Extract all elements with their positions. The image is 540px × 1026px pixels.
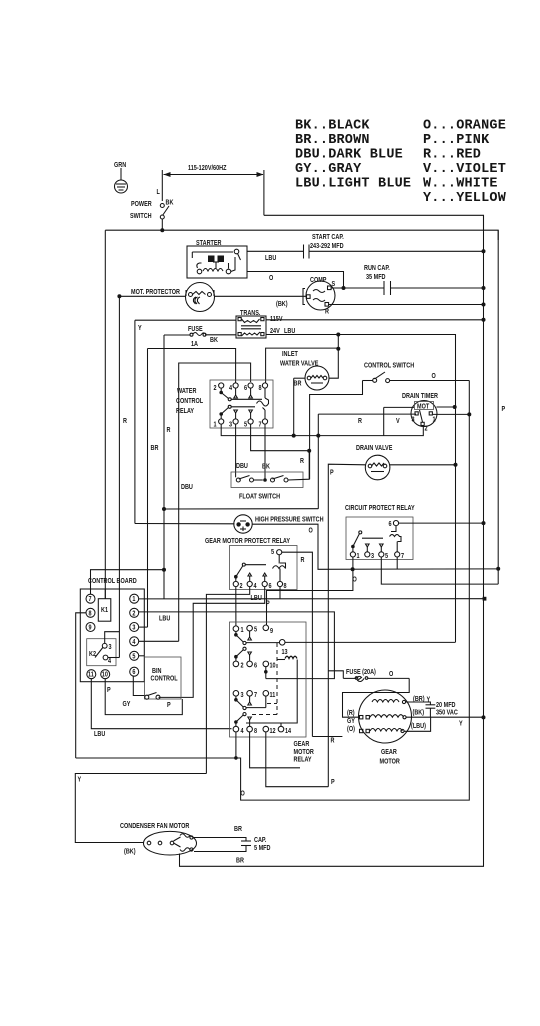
- wire GM4 to O line: [235, 732, 237, 758]
- wire GM12 P: [266, 732, 329, 787]
- svg-text:P: P: [107, 686, 111, 694]
- svg-text:2: 2: [132, 610, 135, 618]
- wire comp R to Y bus: [328, 303, 486, 307]
- gear motor relay GEAR MOTOR RELAY: [230, 622, 315, 764]
- R wire into motor: [312, 736, 342, 738]
- wire term10 dot down right LBU: [265, 667, 267, 679]
- svg-text:3: 3: [109, 643, 112, 651]
- svg-text:P...PINK: P...PINK: [423, 133, 490, 148]
- svg-text:GRN: GRN: [114, 161, 127, 169]
- wire K1 feeds: [104, 589, 106, 599]
- svg-text:9: 9: [270, 627, 273, 635]
- wire starter to start cap LBU: [247, 250, 303, 252]
- wire term7 up and over: [91, 570, 165, 595]
- wire O net bottom y758: [76, 381, 470, 801]
- svg-text:FUSE (20A): FUSE (20A): [346, 668, 376, 676]
- svg-text:115-120V/60HZ: 115-120V/60HZ: [188, 164, 227, 172]
- svg-text:W...WHITE: W...WHITE: [423, 177, 498, 192]
- svg-text:O: O: [353, 576, 357, 584]
- svg-text:SWITCH: SWITCH: [130, 212, 152, 220]
- svg-text:BR: BR: [151, 444, 159, 452]
- svg-text:7: 7: [259, 421, 262, 429]
- wire Y net y773.5: [75, 774, 206, 843]
- svg-text:Y...YELLOW: Y...YELLOW: [423, 191, 507, 206]
- svg-text:243-292 MFD: 243-292 MFD: [310, 242, 344, 250]
- svg-text:6: 6: [254, 662, 257, 670]
- svg-text:4: 4: [108, 657, 111, 665]
- svg-text:6: 6: [132, 669, 135, 677]
- wire P GMPR6 to bin control: [159, 587, 271, 698]
- svg-text:4: 4: [254, 582, 257, 590]
- svg-text:1: 1: [132, 596, 135, 604]
- svg-text:3: 3: [371, 552, 374, 560]
- svg-text:R: R: [301, 556, 305, 564]
- svg-text:GEAR MOTOR PROTECT RELAY: GEAR MOTOR PROTECT RELAY: [205, 537, 291, 545]
- wire 13 to LBU bus: [285, 641, 455, 643]
- svg-text:8: 8: [89, 610, 92, 618]
- wire term6 GY to bin: [123, 676, 146, 708]
- wire Y motor middle lead to Y bus: [406, 715, 486, 727]
- wire term5 to bin: [139, 655, 145, 657]
- svg-text:3: 3: [229, 421, 232, 429]
- svg-text:START CAP.: START CAP.: [312, 233, 344, 241]
- svg-text:CAP.: CAP.: [254, 836, 267, 844]
- starter STARTER: [187, 239, 247, 278]
- svg-text:RUN CAP.: RUN CAP.: [364, 264, 390, 272]
- wire P term10 down right: [105, 679, 182, 715]
- svg-text:R: R: [325, 308, 329, 316]
- svg-text:11: 11: [270, 691, 276, 699]
- svg-text:V...VIOLET: V...VIOLET: [423, 162, 506, 177]
- fan cap CAP. 5 MFD: [193, 825, 271, 864]
- right bus Y x=483.5: [483, 215, 485, 717]
- svg-text:LBU: LBU: [94, 730, 106, 738]
- svg-text:MOTOR: MOTOR: [294, 748, 315, 756]
- wire term2 LBU: [139, 612, 335, 679]
- svg-text:LBU: LBU: [265, 254, 277, 262]
- svg-text:GEAR: GEAR: [294, 740, 310, 748]
- svg-text:BR: BR: [234, 825, 242, 833]
- svg-text:CIRCUIT PROTECT RELAY: CIRCUIT PROTECT RELAY: [345, 504, 415, 512]
- svg-text:P: P: [330, 469, 334, 477]
- svg-text:8: 8: [254, 727, 257, 735]
- svg-text:1: 1: [357, 552, 360, 560]
- wire trans primary right to Y bus: [266, 318, 486, 322]
- control board CONTROL BOARD: [80, 577, 144, 681]
- wire GMPR8 right down: [279, 587, 281, 599]
- svg-text:350 VAC: 350 VAC: [436, 709, 458, 717]
- ground GRN: [114, 161, 128, 193]
- relay K2: [87, 639, 116, 666]
- svg-text:BK: BK: [166, 199, 174, 207]
- drain valve DRAIN VALVE: [328, 444, 457, 786]
- svg-text:LBU: LBU: [159, 615, 171, 623]
- svg-text:3: 3: [132, 624, 135, 632]
- dashed actuator: [276, 643, 278, 715]
- svg-text:BK..BLACK: BK..BLACK: [295, 119, 370, 134]
- circuit protect relay CIRCUIT PROTECT RELAY: [267, 504, 499, 625]
- wire LBU 24V bus to x455: [266, 333, 456, 643]
- svg-text:5: 5: [385, 552, 388, 560]
- svg-text:1: 1: [214, 421, 217, 429]
- svg-text:P: P: [502, 405, 506, 413]
- svg-text:BR..BROWN: BR..BROWN: [295, 133, 370, 148]
- svg-text:MOTOR: MOTOR: [380, 758, 401, 766]
- svg-text:R: R: [123, 417, 127, 425]
- svg-text:O: O: [389, 670, 393, 678]
- svg-text:POWER: POWER: [131, 200, 152, 208]
- wire relay7 BK to float: [262, 424, 270, 480]
- svg-text:K1: K1: [101, 606, 108, 614]
- svg-text:FLOAT SWITCH: FLOAT SWITCH: [239, 493, 280, 501]
- svg-text:P: P: [331, 778, 335, 786]
- svg-text:7: 7: [254, 691, 257, 699]
- drain timer DRAIN TIMER: [318, 392, 471, 508]
- svg-text:10: 10: [102, 671, 108, 679]
- svg-text:1: 1: [241, 626, 244, 634]
- wire relay1 to timer term2: [221, 424, 423, 438]
- svg-text:14: 14: [285, 727, 291, 735]
- wire term8 left down O net: [76, 613, 86, 758]
- svg-text:3: 3: [241, 691, 244, 699]
- svg-text:4: 4: [241, 727, 244, 735]
- wire R net y=508.7: [162, 507, 318, 511]
- svg-text:CONTROL SWITCH: CONTROL SWITCH: [364, 362, 415, 370]
- svg-text:2: 2: [240, 582, 243, 590]
- svg-text:Y: Y: [78, 776, 82, 784]
- svg-text:12: 12: [270, 727, 276, 735]
- gear motor GEAR MOTOR: [312, 690, 411, 766]
- condenser fan motor CONDENSER FAN MOTOR: [120, 822, 197, 855]
- svg-text:R: R: [167, 426, 171, 434]
- svg-text:CONDENSER FAN MOTOR: CONDENSER FAN MOTOR: [120, 822, 190, 830]
- svg-text:BIN: BIN: [152, 667, 162, 675]
- svg-text:LBU.LIGHT BLUE: LBU.LIGHT BLUE: [295, 177, 411, 192]
- wire BR y348 to relay4: [148, 349, 236, 628]
- svg-text:DBU.DARK BLUE: DBU.DARK BLUE: [295, 148, 403, 163]
- svg-text:(O): (O): [347, 725, 355, 733]
- svg-text:3: 3: [412, 416, 415, 424]
- svg-text:BR: BR: [294, 380, 302, 388]
- svg-text:DBU: DBU: [236, 462, 248, 470]
- svg-text:L: L: [157, 188, 160, 196]
- svg-text:6: 6: [244, 384, 247, 392]
- svg-text:(BK): (BK): [276, 300, 288, 308]
- svg-text:GEAR: GEAR: [381, 748, 397, 756]
- svg-text:5: 5: [271, 548, 274, 556]
- wire R fuse down x=163.5: [163, 335, 165, 599]
- 115-120V/60HZ dimension: [162, 164, 264, 215]
- power switch: [130, 188, 174, 232]
- water control relay WATER CONTROL RELAY: [176, 380, 273, 429]
- svg-text:(BK): (BK): [124, 848, 136, 856]
- svg-text:O: O: [269, 274, 273, 282]
- svg-text:35 MFD: 35 MFD: [366, 273, 386, 281]
- internals: [234, 633, 238, 637]
- svg-text:O: O: [241, 790, 245, 798]
- svg-text:BR: BR: [236, 857, 244, 865]
- svg-text:INLET: INLET: [282, 350, 298, 358]
- wire O starter to comp S: [247, 272, 344, 289]
- wire term3 BR: [139, 626, 148, 628]
- svg-text:R...RED: R...RED: [423, 148, 481, 163]
- wire term1 R: [139, 598, 485, 600]
- svg-text:CONTROL: CONTROL: [151, 675, 178, 683]
- svg-text:CONTROL BOARD: CONTROL BOARD: [88, 577, 137, 585]
- transformer TRANS.: [236, 309, 296, 338]
- svg-text:2: 2: [214, 384, 217, 392]
- svg-text:Y: Y: [459, 720, 463, 728]
- svg-text:DRAIN TIMER: DRAIN TIMER: [402, 392, 438, 400]
- svg-text:(BK): (BK): [413, 709, 425, 717]
- svg-text:2: 2: [241, 662, 244, 670]
- main left vertical BK: [104, 230, 106, 598]
- svg-text:O: O: [309, 527, 313, 535]
- right bus BK x=498.2: [497, 230, 499, 584]
- wire R x=119.7 motprot junction down: [118, 296, 120, 657]
- svg-text:V: V: [396, 417, 400, 425]
- float switch FLOAT SWITCH: [231, 451, 309, 501]
- svg-text:20 MFD: 20 MFD: [436, 701, 456, 709]
- wire LBU motor bottom lead: [404, 717, 431, 731]
- svg-text:GY..GRAY: GY..GRAY: [295, 162, 362, 177]
- wire LBU GMPR4 left down x206: [206, 587, 262, 774]
- svg-text:O...ORANGE: O...ORANGE: [423, 119, 506, 134]
- control switch CONTROL SWITCH: [310, 362, 470, 479]
- svg-text:(R): (R): [347, 709, 355, 717]
- relay K1: [98, 599, 111, 622]
- svg-text:5: 5: [132, 653, 135, 661]
- svg-text:BK: BK: [210, 336, 218, 344]
- svg-text:R: R: [331, 737, 335, 745]
- svg-text:DRAIN VALVE: DRAIN VALVE: [356, 444, 393, 452]
- wire Y x=134.9 down: [134, 320, 136, 523]
- wire relay5 to float right: [251, 424, 312, 465]
- svg-text:1A: 1A: [191, 340, 198, 348]
- svg-text:8: 8: [284, 582, 287, 590]
- svg-text:9: 9: [89, 624, 92, 632]
- svg-text:P: P: [266, 600, 270, 608]
- svg-text:GY: GY: [123, 700, 132, 708]
- svg-text:6: 6: [389, 520, 392, 528]
- svg-text:CONTROL: CONTROL: [176, 397, 203, 405]
- svg-text:10: 10: [270, 662, 276, 670]
- svg-text:BK: BK: [262, 463, 270, 471]
- svg-text:O: O: [432, 372, 436, 380]
- run cap RUN CAP. 35 MFD: [344, 264, 486, 295]
- svg-text:5 MFD: 5 MFD: [254, 844, 271, 852]
- svg-text:13: 13: [282, 648, 288, 656]
- wire GM8 down: [250, 732, 300, 768]
- compressor COMP: [303, 276, 346, 315]
- inlet water valve INLET WATER VALVE: [280, 349, 338, 436]
- motor protector MOT. PROTECTOR: [117, 283, 306, 312]
- wire relay3 DBU to float: [236, 424, 249, 477]
- wire Y top: [264, 215, 484, 230]
- fuse FUSE 1A: [164, 325, 236, 348]
- svg-text:5: 5: [244, 421, 247, 429]
- svg-text:1: 1: [433, 416, 436, 424]
- svg-text:4: 4: [229, 384, 232, 392]
- svg-text:6: 6: [269, 582, 272, 590]
- svg-text:11: 11: [88, 671, 94, 679]
- svg-text:2: 2: [425, 425, 428, 433]
- wire fan bottom loop to Y bus: [180, 717, 484, 866]
- svg-text:HIGH PRESSURE SWITCH: HIGH PRESSURE SWITCH: [255, 516, 324, 524]
- fuse FUSE (20A): [328, 668, 409, 717]
- gear motor protect relay GEAR MOTOR PROTECT RELAY: [205, 537, 312, 736]
- svg-text:MOT. PROTECTOR: MOT. PROTECTOR: [131, 288, 180, 296]
- svg-text:RELAY: RELAY: [176, 407, 195, 415]
- high pressure switch HIGH PRESSURE SWITCH: [135, 515, 498, 572]
- start cap START CAP. 243-292 MFD: [304, 233, 486, 258]
- svg-text:7: 7: [401, 552, 404, 560]
- svg-text:P: P: [167, 701, 171, 709]
- wire DBU x=178.7: relay6 to board4: [179, 363, 251, 641]
- svg-text:GY: GY: [347, 717, 356, 725]
- svg-text:R: R: [300, 457, 304, 465]
- wire LBU to relay8: [266, 348, 339, 383]
- legend: [295, 119, 507, 207]
- wire LBU term11 down right to GM relay 4: [91, 679, 231, 739]
- wire BK top edge: [105, 230, 498, 240]
- svg-text:WATER: WATER: [177, 387, 197, 395]
- wire term4 DBU: [139, 640, 179, 642]
- svg-text:R: R: [358, 417, 362, 425]
- svg-text:(LBU): (LBU): [411, 722, 426, 730]
- svg-text:S: S: [332, 280, 336, 288]
- svg-text:8: 8: [259, 384, 262, 392]
- bin control BIN CONTROL: [145, 657, 182, 709]
- wire GMPR2 down to GM relay 1: [235, 587, 237, 626]
- svg-text:MOT: MOT: [417, 403, 429, 411]
- svg-text:4: 4: [132, 638, 135, 646]
- svg-text:DBU: DBU: [181, 483, 193, 491]
- svg-text:7: 7: [89, 596, 92, 604]
- svg-text:Y: Y: [138, 324, 142, 332]
- motor cap 20 MFD 350 VAC: [406, 695, 459, 717]
- svg-text:5: 5: [254, 626, 257, 634]
- wire Y trans primary left: [135, 320, 236, 332]
- svg-text:RELAY: RELAY: [294, 756, 313, 764]
